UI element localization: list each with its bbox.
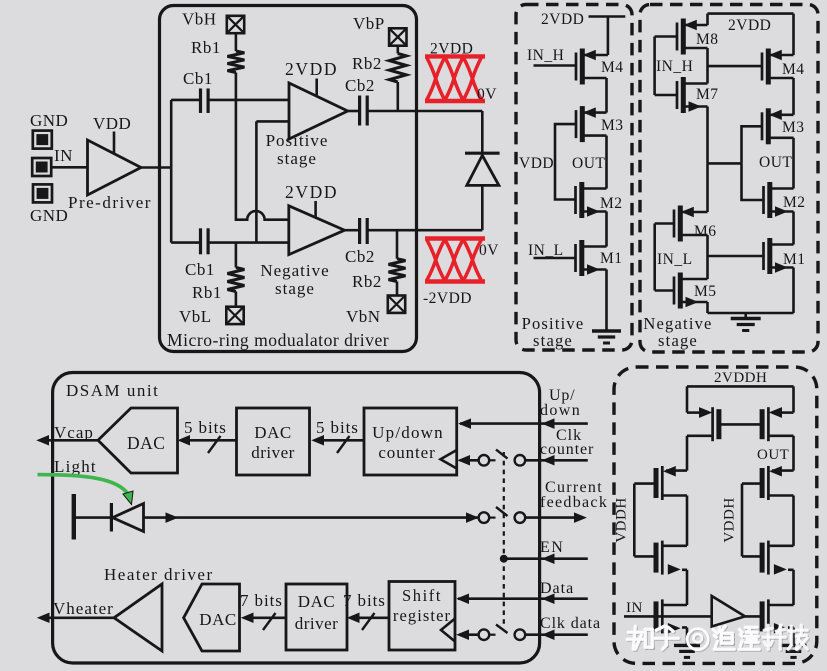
svg-text:VDDH: VDDH <box>614 497 630 542</box>
svg-text:counter: counter <box>540 441 594 458</box>
wire node to Rb1 bottom <box>235 243 238 268</box>
capacitor Cb1 top <box>199 88 202 113</box>
switch current feedback <box>479 512 490 523</box>
wire right branch low <box>792 570 795 605</box>
wire Rb2 to output node <box>396 82 399 111</box>
svg-text:OUT: OUT <box>572 155 605 172</box>
svg-text:counter: counter <box>378 443 435 462</box>
pad VbL <box>226 307 243 324</box>
svg-text:M1: M1 <box>783 251 806 268</box>
photodiode plate <box>72 494 76 540</box>
wire M2-M1 <box>605 212 608 247</box>
op-amp positive stage <box>289 83 348 139</box>
svg-text:Cb2: Cb2 <box>345 247 375 266</box>
wire pre-driver output <box>141 166 171 169</box>
wire M4-M3 <box>605 78 608 113</box>
svg-text:driver: driver <box>295 614 339 633</box>
shift register box <box>389 582 455 651</box>
transistor M7 <box>676 81 679 109</box>
svg-text:DSAM unit: DSAM unit <box>66 381 159 400</box>
wire cross branch to positive stage <box>256 120 289 123</box>
svg-text:5 bits: 5 bits <box>316 418 359 437</box>
svg-text:M6: M6 <box>694 223 717 240</box>
wire Data input <box>458 597 588 600</box>
wire left branch mid <box>686 496 689 546</box>
svg-text:2VDD: 2VDD <box>285 59 338 79</box>
ground 2VDDH left <box>674 644 700 647</box>
svg-text:2VDDH: 2VDDH <box>714 370 767 386</box>
wire M5 gate lead <box>655 289 674 292</box>
wire M2-M1 negative <box>792 212 795 245</box>
wire M4-M3 negative <box>792 78 795 115</box>
transistor M4 negative <box>761 53 764 81</box>
wire ring anode down <box>481 111 484 153</box>
wire ring cathode down <box>481 185 484 230</box>
wire Up/down input <box>460 422 588 425</box>
transistor cascode PMOS right <box>767 466 770 500</box>
wire VDD gate bias <box>555 124 576 199</box>
transistor input NMOS left <box>661 599 664 633</box>
svg-text:OUT: OUT <box>759 154 792 171</box>
svg-text:feedback: feedback <box>540 494 608 511</box>
shift register clock triangle <box>441 619 455 642</box>
wire current feedback left <box>144 516 479 519</box>
svg-text:M2: M2 <box>783 194 806 211</box>
transistor cascode NMOS right <box>767 541 770 575</box>
node EN junction dot <box>500 555 508 563</box>
svg-text:Vheater: Vheater <box>53 599 114 618</box>
op-amp heater driver <box>114 584 162 651</box>
svg-text:Heater driver: Heater driver <box>104 565 214 584</box>
svg-text:M4: M4 <box>601 59 624 76</box>
DAC 2 pentagon <box>184 584 240 651</box>
wire VDDH gate right <box>741 484 744 557</box>
svg-text:0V: 0V <box>479 242 499 259</box>
svg-text:VbH: VbH <box>182 10 217 29</box>
transistor cascode PMOS left <box>661 466 664 500</box>
svg-text:VDD: VDD <box>519 155 554 172</box>
svg-text:M1: M1 <box>600 250 623 267</box>
op-amp negative stage <box>289 206 345 255</box>
wire IN line <box>624 615 712 618</box>
svg-text:DAC: DAC <box>254 423 291 442</box>
svg-text:Positive: Positive <box>266 131 329 150</box>
svg-text:Micro-ring modualator driver: Micro-ring modualator driver <box>167 330 389 350</box>
pad VbN <box>388 296 405 313</box>
transistor input NMOS right <box>767 599 770 633</box>
svg-text:stage: stage <box>533 331 573 350</box>
DAC driver box 2 <box>286 584 347 650</box>
wire right source to ground <box>792 628 795 646</box>
svg-text:Pre-driver: Pre-driver <box>68 193 152 212</box>
bus slash 2 <box>337 436 350 453</box>
svg-text:driver: driver <box>251 443 295 462</box>
positive stage dashed box <box>516 5 632 351</box>
wire right branch mid <box>792 496 795 546</box>
svg-text:Data: Data <box>540 580 574 597</box>
wire Rb1 to VbL pad <box>235 292 238 307</box>
wire M6 gate IN_L <box>655 222 674 225</box>
svg-text:Rb2: Rb2 <box>352 272 382 291</box>
svg-text:Up/down: Up/down <box>372 423 444 442</box>
transistor M3 negative <box>761 112 764 140</box>
DSAM unit box outline <box>53 373 540 664</box>
wire junction to M6 <box>706 163 709 212</box>
svg-text:GND: GND <box>30 206 68 225</box>
wire IN_L lead <box>534 257 576 260</box>
svg-text:DAC: DAC <box>298 592 335 611</box>
svg-text:IN: IN <box>54 146 73 165</box>
pad GND top <box>33 131 52 149</box>
svg-text:-2VDD: -2VDD <box>423 290 472 307</box>
wire Vcap output <box>41 439 98 442</box>
wire bottom branch left <box>171 241 200 244</box>
svg-text:stage: stage <box>275 279 315 298</box>
wire xc left drain down <box>686 436 689 471</box>
svg-text:2VDD: 2VDD <box>430 41 473 58</box>
wire 2VDD rail positive <box>589 15 626 18</box>
pad IN <box>32 158 51 176</box>
wire M3 gate to mid junction <box>742 126 763 163</box>
ground 2VDDH right <box>781 644 807 647</box>
pad GND bottom <box>33 184 52 202</box>
wire negative output <box>345 229 359 232</box>
eye diagram bottom <box>425 236 485 240</box>
bus slash 1 <box>208 436 221 453</box>
wire Vheater output <box>42 616 115 619</box>
svg-text:Shift: Shift <box>402 586 442 605</box>
wire 2VDDH rail <box>687 385 794 388</box>
light green arrow <box>38 475 129 494</box>
transistor M1 positive <box>574 244 577 272</box>
wire buffer out <box>745 615 764 618</box>
svg-text:2VDD: 2VDD <box>728 17 771 34</box>
transistor cascode NMOS left <box>661 541 664 575</box>
svg-text:VDDH: VDDH <box>722 497 738 542</box>
ground positive stage <box>592 329 621 332</box>
capacitor Cb2 top <box>358 96 361 126</box>
transistor M6 <box>673 210 676 238</box>
wire ground stem negative <box>744 313 747 319</box>
up/down counter box <box>364 408 457 475</box>
wire 2VDD stub positive <box>315 79 318 96</box>
svg-text:2VDD: 2VDD <box>541 11 584 28</box>
wire counter to DAC driver arrow <box>315 439 364 442</box>
wire Cb2 top to ring <box>368 110 482 113</box>
svg-text:7 bits: 7 bits <box>343 591 386 610</box>
wire Clk data right segment <box>525 633 588 636</box>
transistor M1 negative <box>762 242 765 270</box>
svg-text:VbN: VbN <box>346 307 381 326</box>
svg-text:down: down <box>540 402 581 419</box>
transistor M4 positive <box>575 53 578 81</box>
wire OUT node negative <box>792 138 795 189</box>
wire IN pad to pre-driver <box>52 166 88 169</box>
transistor M3 positive <box>575 110 578 138</box>
wire M7 to mid junction <box>706 107 709 164</box>
svg-text:DAC: DAC <box>199 610 236 629</box>
svg-text:Clk data: Clk data <box>540 615 601 632</box>
switch clk counter <box>515 455 526 466</box>
svg-text:OUT: OUT <box>757 447 789 463</box>
svg-text:0V: 0V <box>477 86 497 103</box>
wire source rail negative <box>708 312 794 315</box>
svg-text:IN: IN <box>626 600 643 616</box>
svg-text:Rb1: Rb1 <box>192 283 222 302</box>
capacitor Cb1 bottom <box>199 228 202 254</box>
wire bottom branch right <box>209 241 289 244</box>
transistor M2 positive <box>574 186 577 214</box>
wire VDD stub <box>113 132 116 154</box>
transistor cross-coupled right <box>767 407 770 441</box>
wire Clk counter left segment <box>460 459 479 462</box>
negative stage dashed box <box>640 5 818 353</box>
pad VbH <box>227 16 244 33</box>
wire junction to M2 gate <box>742 163 764 200</box>
DAC driver box 1 <box>237 408 310 475</box>
resistor Rb1 bottom <box>227 268 244 292</box>
eye diagram top <box>425 54 485 58</box>
capacitor Cb2 bottom <box>358 218 361 244</box>
op-amp input buffer <box>712 596 745 627</box>
svg-text:M3: M3 <box>782 119 805 136</box>
wire 2VDD rail negative <box>708 12 794 15</box>
wire top branch right <box>209 99 289 102</box>
wire Rb2 to VbN pad <box>396 282 399 296</box>
transistor cross-coupled left <box>711 407 714 441</box>
svg-text:Cb1: Cb1 <box>185 260 215 279</box>
wire M1 source down <box>792 268 795 314</box>
wire node to M1 gate <box>708 255 764 258</box>
svg-text:M2: M2 <box>600 195 623 212</box>
svg-text:M8: M8 <box>696 31 719 48</box>
wire VbP to Rb2 <box>396 46 399 54</box>
dashed EN control line <box>503 452 505 624</box>
svg-text:stage: stage <box>277 149 317 168</box>
wire photodiode anode <box>74 516 112 519</box>
svg-text:IN_L: IN_L <box>657 251 693 268</box>
wire IN_H lead <box>534 64 577 67</box>
transistor M5 <box>673 277 676 305</box>
wire input split vertical <box>170 100 173 243</box>
svg-text:DAC: DAC <box>127 433 165 453</box>
micro-ring modulator driver block outline <box>160 6 417 352</box>
svg-text:2VDD: 2VDD <box>285 182 338 202</box>
svg-text:Light: Light <box>54 457 97 476</box>
wire EN input <box>504 557 588 560</box>
svg-text:7 bits: 7 bits <box>240 591 283 610</box>
svg-text:Cb2: Cb2 <box>345 76 375 95</box>
resistor Rb2 top <box>389 54 406 83</box>
wire M8 drain node <box>706 48 709 84</box>
transistor M8 <box>676 23 679 51</box>
svg-text:Rb1: Rb1 <box>191 38 221 57</box>
wire left source to ground <box>686 628 689 646</box>
op-amp pre-driver <box>88 140 142 195</box>
transistor M2 negative <box>762 186 765 214</box>
resistor Rb1 top <box>227 51 244 73</box>
pad VbP <box>389 28 406 45</box>
svg-text:VDD: VDD <box>93 114 131 133</box>
svg-text:VbL: VbL <box>179 307 212 326</box>
counter clock triangle <box>441 450 457 469</box>
diode ring modulator <box>465 152 500 155</box>
svg-text:stage: stage <box>658 331 698 350</box>
svg-text:M3: M3 <box>601 117 624 134</box>
wire DAC driver2 to DAC2 arrow <box>245 616 287 619</box>
wire 2VDD stub negative <box>314 201 317 217</box>
wire M1 to ground <box>605 270 608 332</box>
svg-text:M7: M7 <box>696 86 719 103</box>
wire positive output <box>348 110 359 113</box>
2VDDH driver dashed box <box>614 367 817 663</box>
wire M7 gate lead <box>655 94 677 97</box>
ground negative stage <box>731 317 761 320</box>
svg-text:Rb2: Rb2 <box>352 54 382 73</box>
svg-text:5 bits: 5 bits <box>184 418 227 437</box>
svg-text:Cb1: Cb1 <box>183 69 213 88</box>
bus slash 3 <box>263 613 276 630</box>
resistor Rb2 bottom <box>389 259 406 282</box>
wire mid junction <box>708 162 742 165</box>
wire VbH to Rb1 <box>235 33 238 51</box>
svg-text:M5: M5 <box>694 283 717 300</box>
wire Clk data left segment <box>459 633 479 636</box>
wire M5 source down <box>706 302 709 313</box>
svg-text:register: register <box>393 606 451 625</box>
switch clk data <box>515 629 526 640</box>
svg-text:GND: GND <box>30 111 68 130</box>
wire current feedback right <box>525 516 581 519</box>
wire top branch left <box>171 99 200 102</box>
svg-text:IN_H: IN_H <box>527 47 564 64</box>
wire OUT node positive <box>605 136 608 189</box>
wire shift register to DAC driver2 arrow <box>351 616 390 619</box>
wire Rb1 to node, down to negative stage input with hop <box>236 73 289 220</box>
photodiode diode <box>110 503 113 532</box>
wire xc right drain down <box>792 436 795 471</box>
svg-text:IN_H: IN_H <box>656 58 693 75</box>
wire Cb2 bottom to ring <box>368 229 482 232</box>
svg-text:EN: EN <box>540 539 564 556</box>
wire cross branch vertical <box>255 121 258 242</box>
wire VDDH gate left <box>633 484 636 557</box>
svg-text:IN_L: IN_L <box>528 242 564 259</box>
svg-text:M4: M4 <box>782 61 805 78</box>
svg-text:Negative: Negative <box>260 261 329 280</box>
wire M6 drain node <box>706 235 709 279</box>
wire DAC driver to DAC arrow <box>181 439 237 442</box>
wire left branch low <box>686 570 689 605</box>
wire node to M4 gate <box>708 65 763 68</box>
wire IN_H gate negative <box>655 35 677 38</box>
bus slash 4 <box>362 613 375 630</box>
DAC 1 pentagon <box>98 408 178 473</box>
svg-text:VbP: VbP <box>353 14 385 33</box>
watermark zhihu text <box>627 625 808 651</box>
wire Clk counter right segment <box>525 459 588 462</box>
wire node to Rb2 bottom <box>396 230 399 259</box>
